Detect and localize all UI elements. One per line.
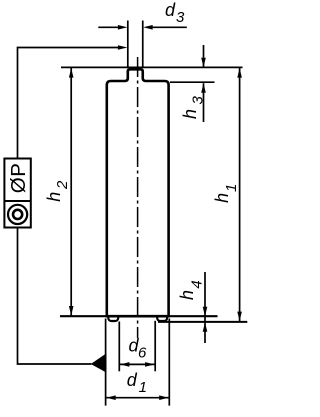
bottom rim bump left — [108, 316, 118, 321]
d1 extension line right — [168, 319, 170, 406]
svg-text:h: h — [177, 290, 197, 300]
datum triangle — [91, 353, 107, 372]
svg-text:1: 1 — [139, 379, 147, 396]
svg-text:h: h — [44, 192, 64, 202]
svg-text:3: 3 — [176, 9, 185, 26]
svg-text:Ø: Ø — [7, 177, 30, 193]
d1 extension line left — [105, 319, 107, 406]
svg-text:d: d — [165, 0, 176, 20]
d3 extension line left — [127, 21, 129, 68]
svg-text:6: 6 — [138, 345, 147, 362]
dimension d3 line left — [98, 26, 119, 28]
centerline — [137, 57, 139, 338]
dimension d6 line — [120, 363, 155, 365]
d6 extension line left — [118, 322, 120, 372]
svg-text:h: h — [212, 193, 232, 203]
leader from gauge box to datum triangle — [18, 228, 92, 364]
top plane extension line — [61, 66, 243, 68]
dimension h4 line — [204, 272, 206, 343]
dimension h1 line — [239, 68, 241, 321]
gauge symbol box — [4, 159, 30, 228]
svg-text:1: 1 — [223, 184, 240, 192]
svg-text:h: h — [180, 109, 200, 119]
bottom plane extension line right — [170, 315, 218, 317]
dimension d1 line — [106, 397, 168, 399]
dimension d3 line right — [152, 26, 187, 28]
seating plane line — [158, 321, 247, 323]
body bottom edge — [106, 315, 170, 318]
svg-text:4: 4 — [189, 280, 206, 288]
d3 extension line right — [142, 21, 144, 68]
gauge ring symbol outer circle — [8, 205, 27, 224]
svg-text:P: P — [7, 163, 30, 177]
dimension h3 line upper — [203, 45, 205, 67]
body outline — [107, 69, 169, 316]
dimension h2 line — [70, 68, 72, 316]
svg-text:2: 2 — [54, 180, 71, 190]
svg-text:3: 3 — [189, 96, 206, 105]
leader from gauge box to terminal — [18, 48, 120, 159]
body-top extension line right — [170, 81, 215, 83]
d6 extension line right — [154, 321, 156, 372]
dimension h3 line lower — [203, 83, 205, 122]
bottom plane extension line left — [60, 315, 106, 317]
bottom rim bump right — [157, 316, 167, 321]
svg-text:d: d — [127, 370, 138, 390]
gauge ring symbol inner circle — [13, 210, 22, 219]
